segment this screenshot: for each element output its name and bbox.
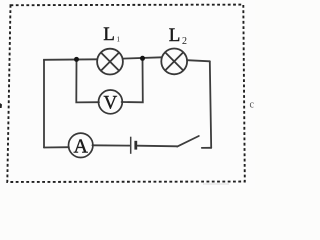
wire: L2 to top-right corner bbox=[187, 60, 210, 61]
wire: top-left segment bbox=[44, 59, 97, 60]
lamp L2 bbox=[161, 49, 187, 75]
wire: switch contact stub bbox=[202, 147, 211, 149]
svg-text:2: 2 bbox=[182, 36, 187, 47]
dashed frame bbox=[7, 5, 245, 182]
svg-text:1: 1 bbox=[117, 36, 121, 44]
ammeter A circle bbox=[69, 133, 93, 157]
wire: left vertical bbox=[43, 60, 45, 148]
node junction dot right bbox=[140, 56, 145, 61]
wire: right vertical bbox=[210, 61, 211, 148]
wire: bottom-left to ammeter bbox=[44, 146, 69, 148]
svg-text:A: A bbox=[73, 136, 88, 158]
voltmeter V circle bbox=[99, 90, 123, 114]
svg-text:V: V bbox=[104, 92, 118, 113]
wire: ammeter to battery bbox=[92, 144, 130, 146]
svg-text:L: L bbox=[169, 25, 181, 46]
stray glyph fragment at left edge bbox=[0, 103, 2, 108]
node junction dot left bbox=[74, 57, 79, 62]
wire: voltmeter branch left bbox=[76, 60, 99, 103]
lamp L1 bbox=[97, 49, 123, 75]
faint scan smudge under bottom border bbox=[203, 183, 229, 185]
svg-text:L: L bbox=[103, 24, 115, 45]
battery cell: short thick plate bbox=[134, 141, 137, 150]
svg-text:c: c bbox=[250, 100, 255, 111]
wire: battery to switch bbox=[138, 145, 178, 148]
switch S (open lever) bbox=[177, 136, 199, 147]
wire: voltmeter branch right bbox=[122, 58, 143, 102]
wire: between L1 and L2 bbox=[123, 57, 162, 58]
battery cell: long plate bbox=[130, 137, 132, 154]
